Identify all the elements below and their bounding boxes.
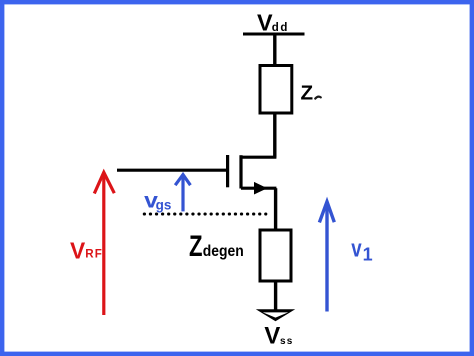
svg-text:Z: Z xyxy=(189,230,203,263)
label ZL subscript remnant xyxy=(315,97,321,99)
arrow v1 blue xyxy=(319,202,334,312)
dotted line gate-source reference xyxy=(144,212,265,215)
wire Zdegen to Vss xyxy=(274,281,277,315)
svg-text:v: v xyxy=(351,236,362,263)
svg-text:1: 1 xyxy=(363,245,373,265)
svg-text:V: V xyxy=(257,10,273,36)
ground Vss arrow symbol xyxy=(256,309,295,321)
svg-text:RF: RF xyxy=(85,248,103,261)
svg-text:Z: Z xyxy=(301,81,314,104)
transistor M1 source lead xyxy=(241,187,276,190)
svg-text:degen: degen xyxy=(203,243,244,260)
wire gate xyxy=(117,169,226,172)
transistor M1 source arrow (NMOS) xyxy=(254,182,267,195)
svg-text:dd: dd xyxy=(272,22,289,34)
power rail Vdd xyxy=(243,32,305,35)
svg-text:ss: ss xyxy=(280,336,294,347)
wire source to Zdegen xyxy=(274,188,277,230)
wire Vdd rail to ZL xyxy=(273,34,276,65)
arrow vgs blue xyxy=(175,175,190,212)
load impedance ZL box xyxy=(260,66,292,114)
svg-text:V: V xyxy=(70,237,86,263)
degeneration impedance Zdegen box xyxy=(260,230,291,281)
transistor M1 gate bar xyxy=(226,155,229,187)
svg-text:gs: gs xyxy=(156,198,172,213)
arrow VRF red xyxy=(94,172,114,315)
wire ZL to drain xyxy=(273,113,276,158)
transistor M1 drain lead xyxy=(241,156,276,159)
svg-text:V: V xyxy=(264,323,280,350)
transistor M1 channel bar xyxy=(239,155,242,188)
